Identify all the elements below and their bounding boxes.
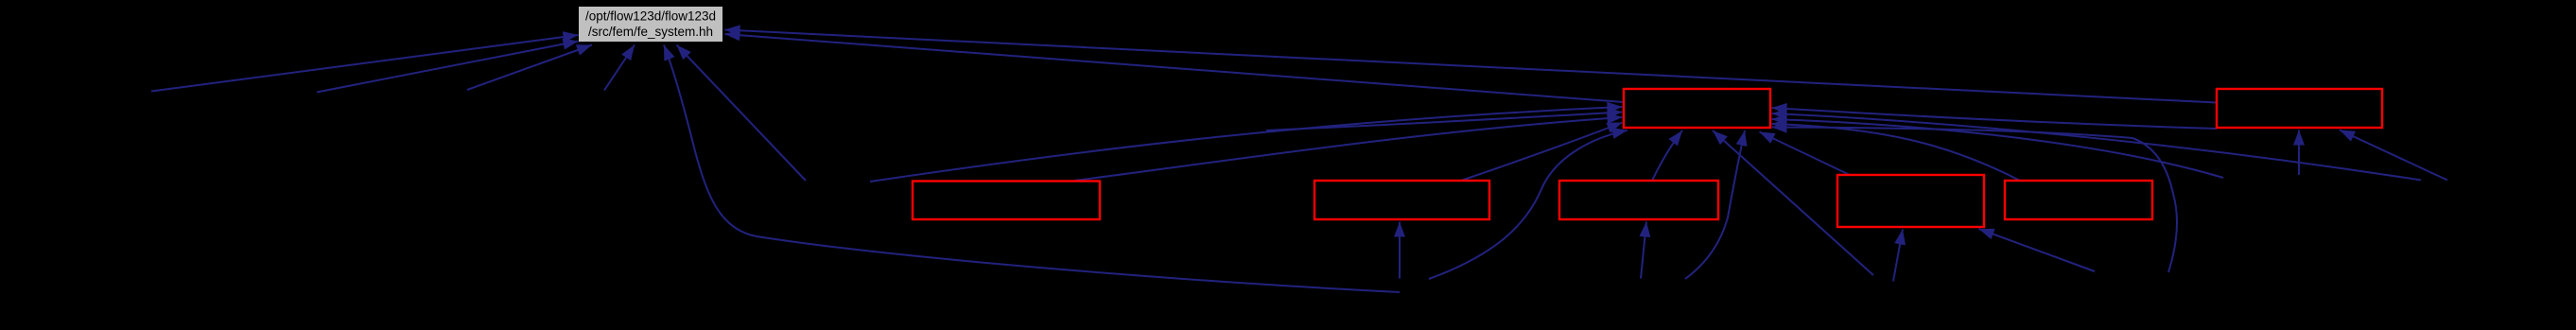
- svg-text:/src/fem/fe_system.hh: /src/fem/fe_system.hh: [588, 25, 713, 39]
- svg-text:/opt/flow123d/flow123d: /opt/flow123d/flow123d: [585, 9, 716, 24]
